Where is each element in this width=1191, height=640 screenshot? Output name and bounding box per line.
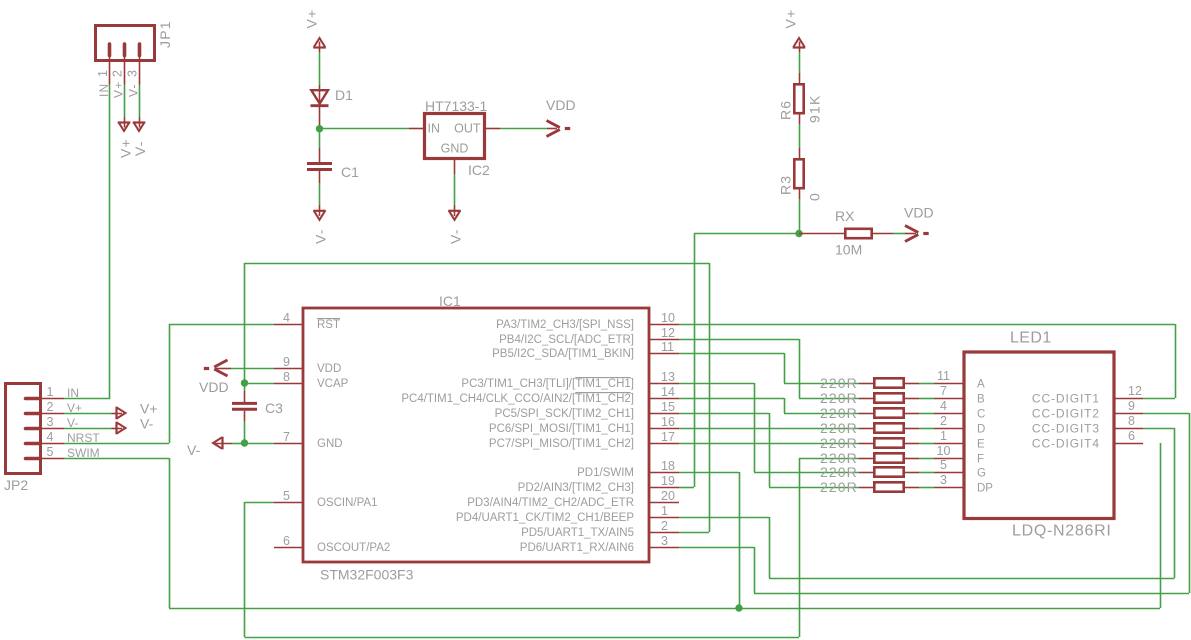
wire segment F row to resistor [799, 458, 859, 460]
svg-text:220R: 220R [820, 435, 858, 451]
wire C1 to V- symbol [319, 183, 321, 205]
wire pin 10 to LED digit1 [679, 324, 1175, 326]
connector JP1 body [96, 26, 155, 61]
svg-text:PC7/SPI_MISO/[TIM1_CH2]: PC7/SPI_MISO/[TIM1_CH2] [489, 438, 634, 450]
wire pin 19 horizontal [679, 487, 694, 489]
junction node SWIM bus / pin 18 [735, 604, 742, 611]
junction node D1/C1/IC2-IN [316, 125, 323, 132]
svg-text:V+: V+ [112, 81, 126, 98]
wire resistor B to LED [919, 398, 934, 400]
svg-text:10M: 10M [835, 242, 862, 258]
wire pin 14 drop [784, 398, 786, 413]
microcontroller IC1 body [303, 308, 649, 562]
wire pin 10 vertical down [1175, 324, 1177, 398]
svg-text:RST: RST [317, 319, 340, 331]
wire junction to IC2 IN [320, 128, 410, 130]
IC1 pin 13 line [649, 383, 679, 385]
wire net IN vertical from JP1 pin1 [109, 85, 111, 399]
svg-text:PA3/TIM2_CH3/[SPI_NSS]: PA3/TIM2_CH3/[SPI_NSS] [496, 319, 634, 331]
svg-text:VDD: VDD [199, 379, 229, 395]
wire net SWIM vertical [169, 458, 171, 608]
JP1 pin 2 line [124, 56, 126, 85]
supply V- arrow (IC2 GND) [454, 205, 456, 216]
supply V+ arrow (JP1 pin2) [124, 117, 126, 128]
svg-text:HT7133-1: HT7133-1 [425, 98, 487, 114]
svg-text:IN: IN [67, 386, 79, 400]
resistor R-DP 220R [859, 487, 875, 489]
svg-text:6: 6 [283, 534, 290, 548]
IC1 pin 18 line [649, 472, 679, 474]
svg-text:1: 1 [47, 385, 54, 399]
LED1 pin 8 line [1114, 428, 1143, 430]
svg-text:0: 0 [807, 192, 823, 201]
svg-text:V-: V- [313, 228, 329, 244]
svg-text:2: 2 [940, 414, 947, 428]
wire JP1 pin2 to V+ symbol [124, 85, 126, 118]
svg-text:220R: 220R [820, 464, 858, 480]
svg-text:4: 4 [283, 311, 290, 325]
wire net IN horizontal to JP2 pin1 [64, 398, 110, 400]
resistor R-C 220R [859, 413, 875, 415]
JP2 pad pin 4 [26, 442, 40, 446]
svg-text:C: C [977, 409, 985, 421]
svg-text:11: 11 [661, 340, 674, 354]
svg-text:10: 10 [661, 311, 675, 325]
wire up to LED pin 8 [1174, 428, 1176, 578]
resistor R-D 220R [859, 428, 875, 430]
IC2 pin OUT line [485, 128, 501, 130]
svg-text:220R: 220R [820, 420, 858, 436]
wire net RST: pin 4 left [169, 324, 274, 326]
svg-text:PC6/SPI_MOSI/[TIM1_CH1]: PC6/SPI_MOSI/[TIM1_CH1] [489, 423, 634, 435]
LED1 pin 1 line [934, 443, 964, 445]
svg-text:RX: RX [835, 208, 855, 224]
svg-text:V+: V+ [140, 401, 158, 417]
wire R6 to R3 [799, 124, 801, 148]
wire pin 2 vertical up [709, 263, 711, 532]
LED1 pin 9 line [1114, 413, 1143, 415]
wire net VCAP: pin8 to junction [245, 383, 275, 385]
svg-text:OSCIN/PA1: OSCIN/PA1 [317, 497, 378, 509]
wire pin 1 horizontal [679, 517, 769, 519]
svg-text:VCAP: VCAP [317, 378, 349, 390]
wire VDD to pin 9 [231, 368, 274, 370]
junction node R3/RX/PD2 [795, 230, 802, 237]
junction node GND [241, 439, 248, 446]
wire net SWIM horizontal [64, 458, 169, 460]
IC2 pin IN line [409, 128, 425, 130]
wire RX to VDD symbol [893, 233, 905, 235]
svg-text:7: 7 [940, 384, 947, 398]
svg-text:C1: C1 [341, 164, 359, 180]
wire pin 18 horizontal [679, 472, 739, 474]
IC1 pin 8 line [274, 383, 303, 385]
svg-text:PD5/UART1_TX/AIN5: PD5/UART1_TX/AIN5 [521, 527, 634, 539]
wire JP2 V- to symbol [64, 428, 112, 430]
wire JP1 pin3 to V- symbol [139, 85, 141, 118]
svg-text:7: 7 [283, 430, 290, 444]
wire pin 3 horizontal [679, 547, 754, 549]
wire net SWIM bottom bus [169, 608, 1160, 610]
svg-text:PD3/AIN4/TIM2_CH2/ADC_ETR: PD3/AIN4/TIM2_CH2/ADC_ETR [467, 497, 634, 509]
wire pin 12 horizontal [679, 339, 799, 341]
svg-text:PC4/TIM1_CH4/CLK_CCO/AIN2/[TIM: PC4/TIM1_CH4/CLK_CCO/AIN2/[TIM1_CH2] [401, 393, 634, 405]
JP1 pad pin 3 [138, 44, 142, 56]
svg-text:OUT: OUT [454, 122, 481, 136]
svg-text:JP2: JP2 [4, 477, 28, 493]
svg-text:5: 5 [47, 445, 54, 459]
svg-text:V-: V- [127, 83, 141, 97]
display LED1 body [964, 352, 1114, 519]
wire net VCAP vertical up [244, 263, 246, 383]
wire JP2 V+ to symbol [64, 413, 112, 415]
wire net RST vertical [169, 324, 171, 443]
wire net OSCIN up to segment F row [799, 458, 801, 637]
svg-text:220R: 220R [820, 405, 858, 421]
LED1 pin 11 line [934, 383, 964, 385]
JP2 pad pin 3 [26, 427, 40, 431]
svg-text:GND: GND [317, 438, 343, 450]
IC1 pin 15 line [649, 413, 679, 415]
svg-text:B: B [977, 394, 985, 406]
svg-text:PD4/UART1_CK/TIM2_CH1/BEEP: PD4/UART1_CK/TIM2_CH1/BEEP [456, 512, 634, 524]
resistor R6 [799, 73, 801, 84]
IC1 pin 16 line [649, 428, 679, 430]
supply V+ arrow (above R6) [799, 42, 801, 53]
svg-text:6: 6 [1128, 429, 1135, 443]
svg-text:PD1/SWIM: PD1/SWIM [577, 467, 634, 479]
supply VDD arrow (IC2 OUT) [547, 128, 557, 130]
svg-text:C3: C3 [265, 400, 283, 416]
wire pin 16 to D row [679, 428, 859, 430]
wire R3 to junction [799, 199, 801, 234]
IC1 pin 17 line [649, 443, 679, 445]
svg-text:PB4/I2C_SCL/[ADC_ETR]: PB4/I2C_SCL/[ADC_ETR] [499, 334, 634, 346]
svg-text:18: 18 [661, 459, 675, 473]
svg-text:PB5/I2C_SDA/[TIM1_BKIN]: PB5/I2C_SDA/[TIM1_BKIN] [492, 348, 634, 360]
svg-text:VDD: VDD [546, 97, 576, 113]
wire pin 2 horizontal [679, 532, 709, 534]
svg-text:3: 3 [126, 69, 140, 77]
svg-text:3: 3 [661, 534, 668, 548]
junction node VCAP/C3 [241, 379, 248, 386]
wire resistor A to LED [919, 383, 934, 385]
wire junction down to C1 [319, 129, 321, 148]
IC1 pin 3 line [649, 547, 679, 549]
wire pin 15 drop [769, 413, 771, 487]
wire V+ arrow to diode D1 [319, 52, 321, 85]
wire V+ arrow to R6 [799, 52, 801, 73]
svg-text:220R: 220R [820, 390, 858, 406]
JP2 pin 4 line [39, 443, 64, 445]
IC2 pin GND line [454, 159, 456, 175]
IC1 pin 2 line [649, 532, 679, 534]
wire junction to C3 [244, 383, 246, 391]
wire pin 3 drop [754, 547, 756, 593]
wire net OSCIN bottom horizontal [245, 637, 800, 639]
IC1 pin 4 line [274, 324, 303, 326]
JP2 pin 1 line [39, 398, 64, 400]
wire net OSCIN vertical [244, 502, 246, 637]
svg-text:3: 3 [47, 415, 54, 429]
svg-text:8: 8 [1128, 414, 1135, 428]
JP1 pad pin 2 [123, 44, 127, 56]
svg-text:V-: V- [448, 228, 464, 244]
svg-text:V-: V- [140, 416, 154, 432]
svg-text:G: G [977, 468, 986, 480]
wire net SWIM up to pin 18 [739, 472, 741, 608]
resistor R-A 220R [859, 383, 875, 385]
svg-text:1: 1 [96, 69, 110, 77]
resistor R-F 220R [859, 458, 875, 460]
supply V+ arrow (JP2 pin2) [112, 413, 123, 415]
svg-text:3: 3 [940, 473, 947, 487]
svg-text:15: 15 [661, 400, 675, 414]
supply V- arrow (IC1 GND) [215, 443, 232, 445]
supply V+ arrow (above D1) [319, 42, 321, 53]
IC1 pin 6 line [274, 547, 303, 549]
svg-text:R3: R3 [778, 175, 794, 195]
supply VDD arrow (RX) [905, 233, 916, 235]
supply VDD arrow (IC1 pin 9) [215, 368, 231, 370]
LED1 pin 12 line [1114, 398, 1143, 400]
IC1 pin 9 line [274, 368, 303, 370]
wire GND junction to V- symbol [232, 443, 245, 445]
svg-text:220R: 220R [820, 375, 858, 391]
wire net VCAP horizontal (to pin 2 column) [245, 263, 710, 265]
svg-text:IC1: IC1 [439, 293, 461, 309]
connector JP2 body [6, 384, 41, 474]
wire IC2 GND to V- symbol [454, 174, 456, 205]
svg-text:20: 20 [661, 489, 675, 503]
svg-text:1: 1 [940, 429, 947, 443]
svg-text:CC-DIGIT1: CC-DIGIT1 [1032, 392, 1100, 406]
wire pin 15 horizontal [679, 413, 769, 415]
svg-text:PD6/UART1_RX/AIN6: PD6/UART1_RX/AIN6 [520, 542, 634, 554]
IC1 pin 11 line [649, 353, 679, 355]
supply V- arrow (JP1 pin3) [139, 117, 141, 128]
resistor RX [799, 233, 845, 235]
svg-text:VDD: VDD [317, 363, 341, 375]
wire segment DP row [769, 487, 859, 489]
JP2 pin 3 line [39, 428, 64, 430]
svg-text:D1: D1 [335, 87, 353, 103]
svg-text:R6: R6 [778, 100, 794, 120]
wire net OSCIN: pin 5 left [245, 502, 275, 504]
wire pin 13 horizontal [679, 383, 754, 385]
svg-text:2: 2 [111, 69, 125, 77]
IC1 pin 19 line [649, 487, 679, 489]
svg-text:1: 1 [661, 504, 668, 518]
svg-text:17: 17 [661, 430, 675, 444]
voltage regulator IC2 body [425, 114, 485, 159]
JP2 pad pin 2 [26, 412, 40, 416]
svg-text:13: 13 [661, 370, 675, 384]
LED1 pin 7 line [934, 398, 964, 400]
svg-text:10: 10 [937, 444, 951, 458]
svg-text:NRST: NRST [67, 431, 100, 445]
wire GND junction to pin 7 [245, 443, 275, 445]
wire to LED pin 12 [1143, 398, 1175, 400]
wire to LED pin 8 stub [1143, 428, 1175, 430]
wire C3 to GND junction [244, 421, 246, 443]
wire up to LED pin 9 [1189, 413, 1191, 593]
wire segment G row [754, 472, 859, 474]
svg-text:11: 11 [937, 369, 950, 383]
LED1 pin 4 line [934, 413, 964, 415]
wire net RX vertical to pin 19 [694, 234, 696, 488]
wire pin 11 drop [784, 353, 786, 383]
svg-text:DP: DP [977, 483, 993, 495]
svg-text:CC-DIGIT3: CC-DIGIT3 [1032, 422, 1100, 436]
wire resistor DP to LED [919, 487, 934, 489]
svg-text:V-: V- [132, 140, 148, 156]
wire pin 3 bottom horizontal [754, 593, 1189, 595]
supply V- arrow (below C1) [319, 205, 321, 216]
wire resistor E to LED [919, 443, 934, 445]
svg-text:8: 8 [283, 370, 290, 384]
wire pin 17 to E row [679, 443, 859, 445]
svg-text:91K: 91K [807, 94, 823, 123]
svg-text:IC2: IC2 [468, 162, 490, 178]
svg-text:OSCOUT/PA2: OSCOUT/PA2 [317, 542, 390, 554]
wire pin 13 drop [754, 383, 756, 472]
svg-text:9: 9 [1128, 399, 1135, 413]
svg-text:2: 2 [661, 519, 668, 533]
svg-text:D: D [977, 424, 985, 436]
diode D1 [319, 85, 321, 129]
wire net NRST horizontal [64, 443, 169, 445]
wire segment A row [784, 383, 859, 385]
wire pin 14 horizontal [679, 398, 784, 400]
JP1 pin 3 line [139, 56, 141, 85]
wire net SWIM right vertical to LED pin 6 [1160, 443, 1162, 608]
svg-text:GND: GND [441, 142, 469, 156]
resistor R-E 220R [859, 443, 875, 445]
JP2 pad pin 5 [26, 457, 40, 461]
svg-text:12: 12 [1128, 384, 1142, 398]
LED1 pin 6 line [1114, 443, 1143, 445]
svg-text:IN: IN [428, 122, 441, 136]
svg-text:F: F [977, 454, 984, 466]
wire resistor C to LED [919, 413, 934, 415]
JP1 pin 1 line [109, 56, 111, 85]
svg-text:5: 5 [940, 458, 947, 472]
wire pin 12 drop [799, 339, 801, 398]
wire segment C row [784, 413, 859, 415]
IC1 pin 5 line [274, 502, 303, 504]
svg-text:E: E [977, 439, 985, 451]
svg-text:VDD: VDD [904, 205, 934, 221]
LED1 pin 10 line [934, 458, 964, 460]
JP2 pad pin 1 [26, 397, 40, 401]
svg-text:5: 5 [283, 489, 290, 503]
wire resistor F to LED [919, 458, 934, 460]
wire net RX horizontal [694, 233, 799, 235]
svg-text:4: 4 [940, 399, 947, 413]
wire segment B row [799, 398, 859, 400]
LED1 pin 2 line [934, 428, 964, 430]
LED1 pin 3 line [934, 487, 964, 489]
svg-text:V+: V+ [304, 9, 320, 29]
wire pin 1 bottom horizontal [769, 578, 1175, 580]
svg-text:V-: V- [187, 442, 201, 458]
svg-text:220R: 220R [820, 479, 858, 495]
svg-text:PD2/AIN3/[TIM2_CH3]: PD2/AIN3/[TIM2_CH3] [518, 482, 634, 494]
svg-text:CC-DIGIT2: CC-DIGIT2 [1032, 407, 1100, 421]
svg-text:2: 2 [47, 400, 54, 414]
JP2 pin 5 line [39, 458, 64, 460]
svg-text:LDQ-N286RI: LDQ-N286RI [1012, 523, 1111, 540]
wire pin 11 horizontal [679, 353, 784, 355]
wire resistor D to LED [919, 428, 934, 430]
wire resistor G to LED [919, 472, 934, 474]
svg-text:STM32F003F3: STM32F003F3 [320, 567, 414, 583]
IC1 pin 1 line [649, 517, 679, 519]
svg-text:LED1: LED1 [1010, 330, 1052, 347]
resistor R-B 220R [859, 398, 875, 400]
IC1 pin 14 line [649, 398, 679, 400]
svg-text:V+: V+ [783, 9, 799, 29]
wire IC2 OUT to VDD symbol [500, 128, 547, 130]
svg-text:19: 19 [661, 474, 675, 488]
JP2 pin 2 line [39, 413, 64, 415]
LED1 pin 5 line [934, 472, 964, 474]
JP1 pad pin 1 [108, 44, 112, 56]
wire pin 1 drop [769, 517, 771, 578]
svg-text:PC5/SPI_SCK/[TIM2_CH1]: PC5/SPI_SCK/[TIM2_CH1] [495, 408, 634, 420]
svg-text:14: 14 [661, 385, 675, 399]
svg-text:16: 16 [661, 415, 675, 429]
supply V- arrow (JP2 pin3) [112, 428, 123, 430]
svg-text:JP1: JP1 [157, 20, 173, 48]
capacitor C1 [319, 148, 321, 162]
wire to LED pin 9 stub [1143, 413, 1189, 415]
IC1 pin 12 line [649, 339, 679, 341]
svg-text:9: 9 [283, 355, 290, 369]
svg-text:PC3/TIM1_CH3/[TLI]/[TIM1_CH1]: PC3/TIM1_CH3/[TLI]/[TIM1_CH1] [461, 378, 634, 390]
IC1 pin 10 line [649, 324, 679, 326]
svg-text:4: 4 [47, 430, 54, 444]
svg-text:CC-DIGIT4: CC-DIGIT4 [1032, 437, 1100, 451]
capacitor C3 [244, 391, 246, 402]
IC1 pin 20 line [649, 502, 679, 504]
resistor R-G 220R [859, 472, 875, 474]
IC1 pin 7 line [274, 443, 303, 445]
resistor R3 [799, 148, 801, 159]
svg-text:A: A [977, 379, 985, 391]
svg-text:12: 12 [661, 326, 675, 340]
